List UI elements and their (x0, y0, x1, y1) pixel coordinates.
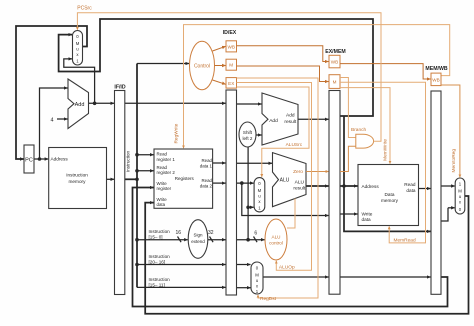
svg-text:EX: EX (228, 81, 234, 86)
wire: immediate up to Shift left 2 and ALU-mux input 1 (246, 147, 253, 240)
svg-text:Read: Read (157, 165, 168, 170)
svg-text:result: result (284, 119, 296, 125)
svg-text:MEM/WB: MEM/WB (425, 66, 447, 72)
wire: PC+4 from IF/ID to ID/EX (125, 102, 226, 104)
svg-text:register: register (157, 186, 172, 191)
mux MemtoReg letters (458, 182, 462, 213)
wire: RegDst control to RegDst mux select (237, 78, 319, 298)
wire: Read data 2 to ID/EX (213, 182, 226, 184)
svg-text:Zero: Zero (293, 169, 303, 175)
svg-text:Address: Address (362, 184, 380, 189)
svg-text:data: data (406, 188, 416, 193)
sign extend (188, 220, 208, 259)
svg-text:RegDst: RegDst (260, 296, 277, 302)
svg-text:WB: WB (331, 60, 338, 65)
control to ID/EX M (215, 65, 226, 67)
wire: instruction to Control (137, 63, 189, 65)
svg-text:PCSrc: PCSrc (77, 6, 92, 12)
control unit oval (190, 41, 215, 89)
svg-text:M: M (76, 41, 80, 46)
svg-text:Read: Read (202, 178, 213, 183)
pipeline register EX/MEM (329, 91, 340, 295)
wire: Read data 1 to ID/EX (213, 162, 226, 164)
wire: instruction [15-0] to Sign extend (137, 237, 188, 243)
control boxes WB M EX on ID/EX (226, 41, 237, 88)
wire: instruction memory output to IF/ID (107, 178, 115, 180)
wire: instruction [15-11] from ID/EX to RegDst mux input 1 (237, 287, 251, 289)
svg-text:Read: Read (202, 158, 213, 163)
wire: instruction to Read register 1 (137, 154, 154, 156)
shift left 2 (239, 122, 256, 147)
svg-text:control: control (269, 241, 283, 246)
svg-text:memory: memory (381, 198, 399, 203)
labels WB M on EX/MEM (331, 60, 338, 85)
svg-text:Sign: Sign (193, 233, 203, 238)
svg-text:register 1: register 1 (157, 157, 176, 162)
svg-text:M: M (333, 80, 337, 85)
svg-text:extend: extend (191, 239, 205, 244)
wire: branch target from EX/MEM to PC-mux input 0 (59, 19, 373, 116)
svg-text:ALUSrc: ALUSrc (286, 142, 303, 148)
wire: Zero flag ALU to EX/MEM (306, 171, 329, 173)
wire: Sign extend output to ID/EX (208, 237, 226, 243)
svg-text:Instruction: Instruction (149, 254, 171, 259)
svg-text:Instruction: Instruction (149, 229, 171, 234)
pipeline register MEM/WB (431, 91, 441, 294)
wire: PC output to instruction memory Address (34, 157, 48, 161)
wire: immediate from ID/EX to ALU control (237, 237, 265, 243)
svg-text:ALU: ALU (295, 179, 305, 185)
wire: constant 4 into Add (57, 118, 68, 120)
wire: ALUOp control to ALU control (237, 83, 312, 271)
adder Add result (branch target) (262, 93, 298, 145)
adder Add (PC+4) (68, 79, 89, 129)
control to ID/EX EX (213, 80, 226, 84)
wire: ALU result from EX/MEM to Data memory Address (340, 184, 358, 188)
svg-text:Address: Address (51, 157, 69, 162)
wire: instruction [20-16] from ID/EX to RegDst mux input 0 (237, 264, 251, 266)
wire: instruction [20-16] to ID/EX (137, 264, 226, 266)
control boxes WB M on EX/MEM (329, 55, 340, 88)
wire: MemWrite control to Data memory (340, 88, 390, 164)
wire: ALU result from MEM/WB to final mux input 0 (441, 208, 455, 221)
pipeline register IF/ID (115, 91, 125, 295)
svg-text:[15– 11]: [15– 11] (149, 282, 165, 287)
wire: final mux output write-back to Registers Write data (145, 196, 468, 314)
pipeline register ID/EX (226, 90, 237, 295)
svg-text:left 2: left 2 (243, 136, 253, 141)
wire: Read data from MEM/WB to final mux input 1 (441, 185, 455, 187)
control box WB on MEM/WB (431, 73, 441, 86)
svg-text:ALU: ALU (280, 177, 290, 183)
svg-text:WB: WB (432, 78, 439, 83)
svg-text:WB: WB (227, 44, 234, 49)
wire: write register number from MEM/WB back to Registers Write register (133, 188, 448, 307)
svg-text:MemtoReg: MemtoReg (451, 149, 457, 173)
svg-text:Read: Read (157, 151, 168, 156)
svg-text:Add: Add (75, 102, 85, 108)
wire: WB control ID/EX to EX/MEM (237, 46, 329, 62)
wire: instruction to Read register 2 (137, 170, 154, 172)
svg-text:EX/MEM: EX/MEM (325, 49, 345, 55)
svg-text:Add: Add (286, 113, 295, 119)
wire: PC to Add top input (40, 88, 68, 159)
mux RegDst letters (255, 266, 259, 295)
svg-text:Write: Write (157, 181, 168, 186)
wire: store data from EX/MEM to Data memory Write data (340, 213, 358, 215)
wire: Add output PC+4 to IF/ID (89, 102, 115, 106)
wire: Data memory Read data to MEM/WB (419, 188, 431, 190)
wire: PC+4 from ID/EX to branch Add (237, 103, 262, 105)
svg-text:RegWrite: RegWrite (174, 123, 180, 143)
svg-text:ALU: ALU (272, 235, 281, 240)
wire: write register number EX/MEM to MEM/WB (340, 276, 431, 278)
wire: MemRead control to Data memory bottom (340, 82, 426, 243)
mux ALU letters (258, 181, 262, 211)
wire: RegWrite from MEM/WB WB to Registers (184, 25, 450, 149)
svg-text:Shift: Shift (243, 130, 253, 135)
wire: Branch control to AND gate (340, 78, 356, 138)
wire: PC+4 loop to PC-mux input 1 (64, 59, 95, 103)
ALU (273, 153, 307, 207)
mux RegDst (251, 262, 263, 294)
registers (register file) (154, 149, 213, 208)
svg-text:ID/EX: ID/EX (223, 30, 237, 36)
svg-text:[20– 16]: [20– 16] (149, 259, 166, 264)
wire: PC-mux output to PC input (16, 26, 87, 159)
svg-text:MemRead: MemRead (394, 238, 416, 244)
register PC (24, 145, 34, 173)
svg-text:Read: Read (404, 182, 416, 187)
wire: ALU result bypass vertical (344, 116, 431, 231)
svg-text:Add: Add (269, 118, 278, 124)
svg-text:Write: Write (362, 211, 373, 216)
svg-text:IF/ID: IF/ID (114, 84, 125, 90)
wire: instruction bus from IF/ID (125, 64, 139, 288)
wire: Read data 2 down to EX/MEM (store data) (242, 183, 329, 215)
svg-text:PC: PC (25, 158, 33, 164)
wire: Shift left 2 to branch Add (256, 134, 262, 136)
svg-text:Branch: Branch (351, 127, 367, 133)
wire: branch Add result to EX/MEM (298, 118, 329, 120)
svg-text:data 1: data 1 (200, 164, 213, 169)
svg-text:register 2: register 2 (157, 170, 176, 175)
AND gate branch (356, 134, 374, 148)
svg-text:memory: memory (69, 179, 87, 184)
svg-text:M: M (258, 188, 262, 193)
wire: Read data 2 from ID/EX to ALU-mux input 0 (237, 181, 254, 185)
svg-text:data: data (157, 202, 166, 207)
instruction memory (49, 148, 107, 209)
svg-text:M: M (458, 189, 462, 194)
wire: PCSrc from AND gate to PC-mux select (77, 13, 381, 141)
svg-text:Registers: Registers (175, 176, 195, 181)
svg-text:Control: Control (194, 64, 210, 70)
svg-text:Instruction: Instruction (149, 277, 171, 282)
wire: Read data 1 from ID/EX to ALU (237, 162, 273, 164)
control to ID/EX WB (213, 46, 226, 51)
svg-text:4: 4 (50, 117, 53, 123)
mux MemtoReg (write-back) (455, 178, 465, 214)
svg-text:M: M (229, 63, 233, 68)
wire: RegDst mux output write register number through EX/MEM (263, 276, 329, 278)
wire: instruction [15-11] to ID/EX (137, 286, 226, 288)
wire: Zero from EX/MEM to AND gate (340, 146, 356, 171)
svg-text:[15– 0]: [15– 0] (149, 235, 163, 240)
svg-text:6: 6 (254, 230, 257, 236)
mux PC source (73, 31, 83, 66)
mux ALU source (254, 178, 265, 212)
svg-text:result: result (293, 185, 305, 191)
wire: ALU control output to ALU (287, 199, 295, 229)
wire: M control ID/EX to EX/MEM (237, 66, 329, 82)
wire: ALU result to EX/MEM (306, 185, 329, 187)
wire: MemtoReg from MEM/WB WB to final mux select (441, 85, 460, 177)
wire: WB control EX/MEM to MEM/WB (340, 64, 431, 79)
data memory (358, 165, 419, 226)
svg-text:Instruction: Instruction (126, 150, 131, 172)
svg-text:data: data (362, 217, 372, 222)
wire: ALUSrc control to ALU-mux select (237, 87, 310, 177)
svg-text:data 2: data 2 (200, 184, 213, 189)
svg-text:32: 32 (208, 230, 214, 236)
mux PC letters (76, 34, 80, 64)
svg-text:M: M (255, 273, 259, 278)
svg-text:Data: Data (385, 192, 395, 197)
svg-text:Instruction: Instruction (66, 173, 88, 178)
ALU control oval (265, 219, 287, 260)
svg-text:MemWrite: MemWrite (382, 139, 388, 161)
svg-text:16: 16 (176, 230, 182, 236)
svg-text:ALUOp: ALUOp (279, 264, 295, 270)
labels WB M EX on ID/EX (227, 44, 234, 86)
